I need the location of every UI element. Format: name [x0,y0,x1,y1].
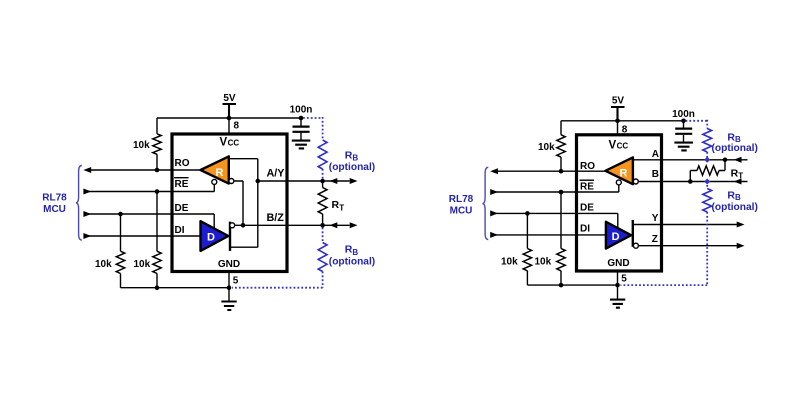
dotted wire RB upper to A/Y (left) [322,169,324,179]
resistor 10k pull-up on RO (right) [538,121,565,171]
wire: receiver non-inverting input to A/Y (left) [229,159,258,248]
junction A/Y internal (left) [255,179,260,184]
arrow on B (right) [734,179,742,185]
svg-text:10k: 10k [134,259,151,270]
ground symbol under 100n (right) [674,143,693,151]
pin 5 wire (right) [617,271,619,285]
resistor RB optional lower (right) [703,185,758,213]
svg-text:5V: 5V [223,93,236,104]
bidirectional arrows on B/Z (left) [330,222,358,228]
5V supply symbol (left) [223,93,237,118]
ground symbol (left) [221,288,236,310]
resistor RB optional upper (left) [318,140,375,173]
svg-text:RL78: RL78 [42,193,67,204]
svg-text:B: B [652,169,659,180]
dotted wire RB upper to A (right) [706,152,708,158]
svg-text:R: R [216,167,224,179]
svg-text:5V: 5V [612,95,625,106]
svg-text:V: V [609,139,617,151]
RL78 MCU label (right) [449,194,474,216]
svg-text:CC: CC [617,141,629,150]
svg-text:T: T [738,171,743,180]
arrow on A (right) [734,157,742,163]
junction: rail to 100n cap (left) [299,116,304,121]
svg-text:8: 8 [234,120,240,131]
svg-text:D: D [207,231,215,243]
pin 8 wire (left) [228,118,230,135]
wire Y (right) [633,224,738,226]
Vcc pin label (right) [609,139,629,151]
wire: receiver inverting input to B/Z (left) [234,181,243,225]
svg-text:V: V [220,136,228,148]
op-amp style driver D (left) [201,221,229,251]
5V supply symbol (right) [611,95,625,121]
dotted optional wire from rail to RB upper (left) [303,117,323,140]
svg-text:B/Z: B/Z [267,212,285,224]
svg-text:(optional): (optional) [329,256,375,267]
junction pull-down /RE on rail (right) [559,283,564,288]
ground symbol under 100n (left) [292,141,311,149]
svg-text:100n: 100n [290,105,313,116]
bidirectional arrows on A/Y (left) [330,178,358,184]
wire DE (right) with arrow from MCU [490,210,618,228]
wire RO (right) with arrow to MCU [490,168,605,174]
op-amp style receiver R (left) [201,156,229,183]
resistor RB optional lower (left) [318,243,375,272]
junction RO / pull-up (left) [155,168,160,173]
svg-text:10k: 10k [501,256,518,267]
wire /RE (right) with arrow from MCU [490,185,619,195]
svg-text:MCU: MCU [450,205,473,216]
/RE pin label with overline (right) [580,180,595,193]
junction RO / pull-up (right) [559,169,564,174]
svg-text:DE: DE [175,203,189,214]
svg-text:100n: 100n [672,109,695,120]
svg-text:DI: DI [175,225,185,236]
inversion bubble: receiver enable (right) [616,180,621,185]
junction: inverting input on B/Z (left) [241,223,246,228]
inversion bubble: receiver inverting input (left) [229,179,234,184]
wire B (right) [638,181,747,183]
junction RT on B/Z (left) [320,223,325,228]
wire B/Z (left) [235,224,350,226]
brace for MCU signals (right) [482,167,488,239]
dotted wire B/Z to RB lower (left) [322,228,324,243]
junction RT on A/Y (left) [320,179,325,184]
svg-text:(optional): (optional) [712,143,758,154]
svg-text:(optional): (optional) [712,202,758,213]
junction /RE / pull-down (left) [155,189,160,194]
wire /RE (left) with arrow from MCU [83,184,214,194]
wire: VCC top rail (left) [157,117,301,119]
wire DI (right) with arrow from MCU [490,232,606,238]
wire: VCC top rail (right) [561,120,684,122]
ground symbol (right) [610,285,625,308]
svg-text:RE: RE [175,179,189,190]
svg-text:DI: DI [580,224,590,235]
junction /RE / pull-down (right) [559,190,564,195]
inversion bubble: receiver input B (right) [633,179,638,184]
svg-text:R: R [620,168,628,180]
junction DE / pull-down (left) [118,212,123,217]
svg-text:10k: 10k [538,142,555,153]
svg-text:(optional): (optional) [329,162,375,173]
svg-text:10k: 10k [95,259,112,270]
svg-text:RE: RE [580,182,594,193]
capacitor 100n (right) [672,109,695,142]
driver output bar (left) [229,222,231,251]
inversion bubble: driver inverting output (left) [230,223,235,228]
junction RT on A (right) [723,158,728,163]
inversion bubble: driver output Z (right) [633,243,638,248]
op-amp style driver D (right) [606,222,631,249]
resistor 10k pull-up on RO (left) [133,118,161,170]
svg-text:Z: Z [652,234,658,245]
op-amp style receiver R (right) [605,157,633,184]
transceiver IC box (right) [577,135,662,271]
junction: rail to 100n cap (right) [681,119,686,124]
Vcc pin label (left) [220,136,240,148]
svg-text:RO: RO [580,161,595,172]
svg-text:10k: 10k [535,256,552,267]
capacitor 100n (left) [290,105,313,140]
resistor RT termination (right) [690,160,743,182]
pin 5 wire (left) [228,271,230,288]
svg-text:B: B [735,193,741,202]
junction: 5V to rail (left) [227,116,232,121]
inversion bubble: receiver enable (left) [212,179,217,184]
resistor RB optional upper (right) [703,129,758,154]
junction RT on B (right) [688,179,693,184]
junction: 5V to rail (right) [615,119,620,124]
svg-text:D: D [612,231,620,243]
svg-text:5: 5 [621,274,627,285]
resistor 10k pull-down on DE (right) [501,213,532,285]
blue junction RB on A (right) [704,157,710,163]
junction DE / pull-down (right) [525,211,530,216]
svg-text:GND: GND [218,259,240,270]
/RE pin label with overline (left) [174,178,189,191]
blue junction RB on B (right) [704,179,710,185]
pin 8 wire (right) [617,121,619,136]
resistor 10k pull-down on DE (left) [95,214,125,288]
svg-text:A: A [652,149,659,160]
wire DI (left) with arrow from MCU [83,233,200,239]
svg-text:CC: CC [228,138,240,147]
svg-text:RO: RO [175,158,190,169]
transceiver IC box (left) [172,134,287,272]
dotted optional wire from rail to RB upper (right) [686,120,708,129]
wire ground rail (right) [527,284,617,286]
wire Z (right) [638,245,738,247]
wire ground rail (left) [121,287,230,289]
dotted wire RB lower to ground rail (left) [232,272,323,288]
svg-text:5: 5 [233,276,239,287]
resistor RT termination (left) [318,181,344,225]
RL78 MCU label [42,193,67,215]
junction pin 5 on rail (right) [615,283,620,288]
resistor 10k pull-down on /RE (left) [134,192,162,288]
wire RO (left) with arrow to MCU [83,167,200,173]
junction pin 5 on rail (left) [227,285,232,290]
svg-text:RL78: RL78 [449,194,474,205]
driver output bar (right) [632,220,634,247]
svg-text:DE: DE [580,203,594,214]
svg-text:MCU: MCU [43,204,66,215]
svg-text:T: T [339,203,344,212]
svg-text:GND: GND [607,258,629,269]
arrow on Z (right) [737,243,745,249]
resistor 10k pull-down on /RE (right) [535,192,566,285]
brace for MCU signals (left) [76,166,82,241]
dotted wire RB lower to ground rail (right) [621,212,708,285]
wire DE (left) with arrow from MCU [83,211,214,229]
wire A (right) [633,159,748,161]
svg-text:10k: 10k [133,140,150,151]
svg-text:A/Y: A/Y [267,168,286,180]
svg-text:Y: Y [652,213,659,224]
wire A/Y (left) [258,180,350,182]
junction pull-down /RE on rail (left) [155,285,160,290]
arrow on Y (right) [737,222,745,228]
